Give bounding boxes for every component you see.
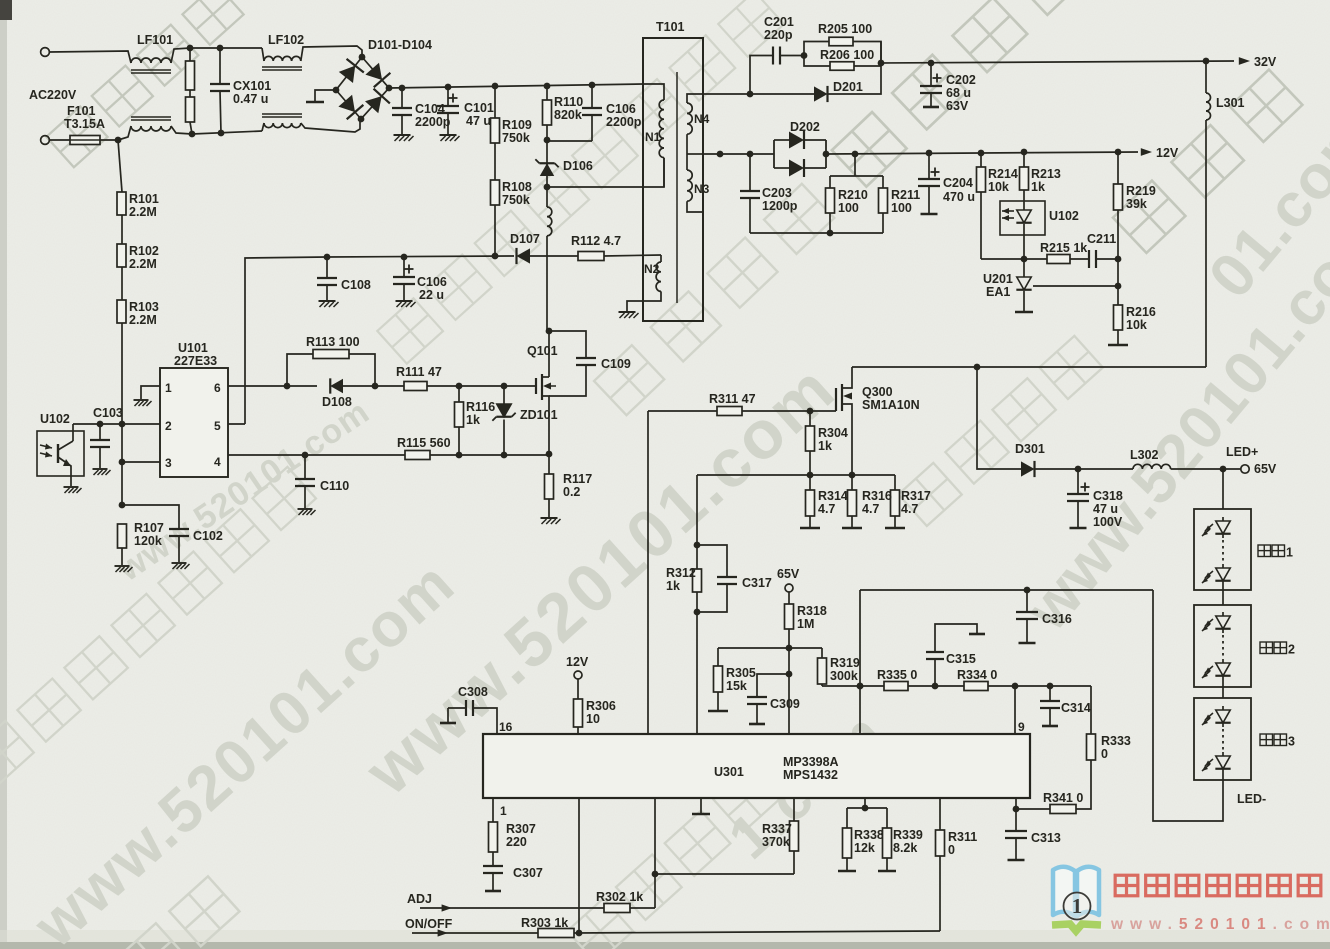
- svg-text:R314: R314: [818, 489, 848, 503]
- svg-text:R115 560: R115 560: [397, 436, 451, 450]
- svg-text:LED-: LED-: [1237, 792, 1266, 806]
- svg-text:R305: R305: [726, 666, 756, 680]
- svg-text:47 u: 47 u: [466, 114, 491, 128]
- svg-text:1k: 1k: [466, 413, 480, 427]
- svg-text:R219: R219: [1126, 184, 1156, 198]
- svg-text:1: 1: [1286, 546, 1293, 560]
- svg-text:U201: U201: [983, 272, 1013, 286]
- svg-text:1: 1: [1072, 894, 1083, 918]
- svg-text:R333: R333: [1101, 734, 1131, 748]
- svg-text:63V: 63V: [946, 99, 969, 113]
- svg-text:15k: 15k: [726, 679, 747, 693]
- svg-text:750k: 750k: [502, 193, 530, 207]
- svg-text:R306: R306: [586, 699, 616, 713]
- svg-text:22 u: 22 u: [419, 288, 444, 302]
- svg-text:2200p: 2200p: [606, 115, 642, 129]
- svg-text:3: 3: [165, 456, 172, 470]
- svg-text:R211: R211: [891, 188, 920, 202]
- svg-text:R318: R318: [797, 604, 827, 618]
- svg-text:39k: 39k: [1126, 197, 1147, 211]
- svg-text:4.7: 4.7: [818, 502, 835, 516]
- svg-text:470 u: 470 u: [943, 190, 975, 204]
- svg-text:D202: D202: [790, 120, 820, 134]
- svg-text:R335 0: R335 0: [877, 668, 917, 682]
- svg-text:820k: 820k: [554, 108, 582, 122]
- svg-text:1k: 1k: [1031, 180, 1045, 194]
- svg-text:U102: U102: [40, 412, 70, 426]
- svg-text:47 u: 47 u: [1093, 502, 1118, 516]
- svg-text:10k: 10k: [988, 180, 1009, 194]
- svg-text:L302: L302: [1130, 448, 1159, 462]
- svg-text:D101-D104: D101-D104: [368, 38, 432, 52]
- svg-text:MP3398A: MP3398A: [783, 755, 839, 769]
- svg-text:SM1A10N: SM1A10N: [862, 398, 920, 412]
- svg-text:R102: R102: [129, 244, 159, 258]
- svg-text:D107: D107: [510, 232, 540, 246]
- svg-text:C102: C102: [193, 529, 223, 543]
- svg-text:R108: R108: [502, 180, 532, 194]
- svg-text:C110: C110: [320, 479, 349, 493]
- svg-text:2200p: 2200p: [415, 115, 451, 129]
- svg-text:C317: C317: [742, 576, 772, 590]
- svg-text:R316: R316: [862, 489, 892, 503]
- svg-text:R304: R304: [818, 426, 848, 440]
- svg-text:N2: N2: [644, 262, 660, 276]
- svg-text:C203: C203: [762, 186, 792, 200]
- svg-text:R101: R101: [129, 192, 159, 206]
- svg-text:C201: C201: [764, 15, 794, 29]
- svg-text:D108: D108: [322, 395, 352, 409]
- svg-text:C106: C106: [417, 275, 447, 289]
- svg-text:AC220V: AC220V: [29, 88, 77, 102]
- svg-text:16: 16: [499, 720, 513, 734]
- svg-text:1: 1: [500, 804, 507, 818]
- svg-text:100V: 100V: [1093, 515, 1123, 529]
- svg-text:C211: C211: [1087, 232, 1116, 246]
- svg-text:C314: C314: [1061, 701, 1091, 715]
- svg-text:1M: 1M: [797, 617, 814, 631]
- svg-text:4.7: 4.7: [862, 502, 879, 516]
- svg-text:68 u: 68 u: [946, 86, 971, 100]
- svg-text:C316: C316: [1042, 612, 1072, 626]
- svg-text:R303 1k: R303 1k: [521, 916, 568, 930]
- svg-text:1k: 1k: [666, 579, 680, 593]
- svg-text:T101: T101: [656, 20, 685, 34]
- svg-text:N4: N4: [694, 112, 710, 126]
- svg-text:EA1: EA1: [986, 285, 1010, 299]
- svg-text:2.2M: 2.2M: [129, 257, 157, 271]
- svg-text:D201: D201: [833, 80, 863, 94]
- svg-text:3: 3: [1288, 735, 1295, 749]
- svg-text:LED+: LED+: [1226, 445, 1258, 459]
- svg-text:C313: C313: [1031, 831, 1061, 845]
- svg-text:C308: C308: [458, 685, 488, 699]
- svg-text:R205 100: R205 100: [818, 22, 872, 36]
- svg-text:227E33: 227E33: [174, 354, 217, 368]
- svg-text:F101: F101: [67, 104, 96, 118]
- svg-text:12V: 12V: [566, 655, 589, 669]
- svg-text:C103: C103: [93, 406, 123, 420]
- svg-text:Q101: Q101: [527, 344, 558, 358]
- svg-text:C315: C315: [946, 652, 976, 666]
- svg-text:C204: C204: [943, 176, 973, 190]
- svg-text:R338: R338: [854, 828, 884, 842]
- svg-text:12k: 12k: [854, 841, 875, 855]
- svg-text:12V: 12V: [1156, 146, 1179, 160]
- svg-text:R334 0: R334 0: [957, 668, 997, 682]
- svg-text:R311 47: R311 47: [709, 392, 756, 406]
- svg-text:9: 9: [1018, 720, 1025, 734]
- svg-text:C318: C318: [1093, 489, 1123, 503]
- svg-text:0: 0: [1101, 747, 1108, 761]
- svg-text:R109: R109: [502, 118, 532, 132]
- svg-text:R117: R117: [563, 472, 592, 486]
- svg-text:Q300: Q300: [862, 385, 893, 399]
- svg-text:N1: N1: [645, 130, 661, 144]
- svg-text:U101: U101: [178, 341, 208, 355]
- svg-text:D301: D301: [1015, 442, 1045, 456]
- svg-text:R341 0: R341 0: [1043, 791, 1083, 805]
- svg-text:220p: 220p: [764, 28, 793, 42]
- svg-text:C202: C202: [946, 73, 976, 87]
- svg-text:100: 100: [891, 201, 912, 215]
- svg-text:5: 5: [214, 419, 221, 433]
- svg-text:1k: 1k: [818, 439, 832, 453]
- svg-text:4: 4: [214, 455, 221, 469]
- svg-text:C108: C108: [341, 278, 371, 292]
- svg-text:100: 100: [838, 201, 859, 215]
- svg-text:65V: 65V: [1254, 462, 1277, 476]
- svg-text:R215 1k: R215 1k: [1040, 241, 1087, 255]
- svg-text:R307: R307: [506, 822, 536, 836]
- svg-text:R206 100: R206 100: [820, 48, 874, 62]
- svg-text:R317: R317: [901, 489, 931, 503]
- svg-text:8.2k: 8.2k: [893, 841, 917, 855]
- svg-text:1200p: 1200p: [762, 199, 798, 213]
- svg-text:0: 0: [948, 843, 955, 857]
- svg-text:ADJ: ADJ: [407, 892, 432, 906]
- svg-text:R103: R103: [129, 300, 159, 314]
- svg-text:1: 1: [165, 381, 172, 395]
- svg-text:R111 47: R111 47: [396, 365, 442, 379]
- svg-text:T3.15A: T3.15A: [64, 117, 105, 131]
- svg-text:4.7: 4.7: [901, 502, 918, 516]
- svg-text:2.2M: 2.2M: [129, 313, 157, 327]
- svg-text:6: 6: [214, 381, 221, 395]
- svg-text:R339: R339: [893, 828, 923, 842]
- svg-text:65V: 65V: [777, 567, 800, 581]
- svg-text:U102: U102: [1049, 209, 1079, 223]
- svg-text:2: 2: [1288, 643, 1295, 657]
- svg-text:220: 220: [506, 835, 527, 849]
- svg-text:2: 2: [165, 419, 172, 433]
- svg-text:ZD101: ZD101: [520, 408, 558, 422]
- svg-text:R337: R337: [762, 822, 792, 836]
- svg-text:ON/OFF: ON/OFF: [405, 917, 453, 931]
- svg-text:0.47 u: 0.47 u: [233, 92, 268, 106]
- svg-text:32V: 32V: [1254, 55, 1277, 69]
- svg-text:R216: R216: [1126, 305, 1156, 319]
- svg-text:R302 1k: R302 1k: [596, 890, 643, 904]
- svg-text:0.2: 0.2: [563, 485, 580, 499]
- svg-text:R107: R107: [134, 521, 164, 535]
- svg-text:D106: D106: [563, 159, 593, 173]
- svg-text:750k: 750k: [502, 131, 530, 145]
- svg-text:C307: C307: [513, 866, 543, 880]
- svg-text:MPS1432: MPS1432: [783, 768, 838, 782]
- svg-text:LF101: LF101: [137, 33, 173, 47]
- svg-text:R312: R312: [666, 566, 696, 580]
- svg-text:R210: R210: [838, 188, 868, 202]
- svg-text:R113 100: R113 100: [306, 335, 360, 349]
- svg-text:R311: R311: [948, 830, 977, 844]
- svg-text:LF102: LF102: [268, 33, 304, 47]
- svg-text:R319: R319: [830, 656, 860, 670]
- svg-text:R116: R116: [466, 400, 495, 414]
- svg-text:120k: 120k: [134, 534, 162, 548]
- svg-text:10k: 10k: [1126, 318, 1147, 332]
- svg-text:C106: C106: [606, 102, 636, 116]
- svg-text:R110: R110: [554, 95, 583, 109]
- svg-text:L301: L301: [1216, 96, 1245, 110]
- svg-text:U301: U301: [714, 765, 744, 779]
- svg-text:N3: N3: [694, 182, 710, 196]
- svg-text:C101: C101: [464, 101, 494, 115]
- svg-text:R214: R214: [988, 167, 1018, 181]
- svg-text:C109: C109: [601, 357, 631, 371]
- svg-text:10: 10: [586, 712, 600, 726]
- svg-text:300k: 300k: [830, 669, 858, 683]
- svg-text:R213: R213: [1031, 167, 1061, 181]
- svg-text:CX101: CX101: [233, 79, 271, 93]
- svg-text:C309: C309: [770, 697, 800, 711]
- svg-text:2.2M: 2.2M: [129, 205, 157, 219]
- svg-text:370k: 370k: [762, 835, 790, 849]
- svg-text:R112 4.7: R112 4.7: [571, 234, 621, 248]
- svg-text:www.520101.com: www.520101.com: [1110, 916, 1330, 933]
